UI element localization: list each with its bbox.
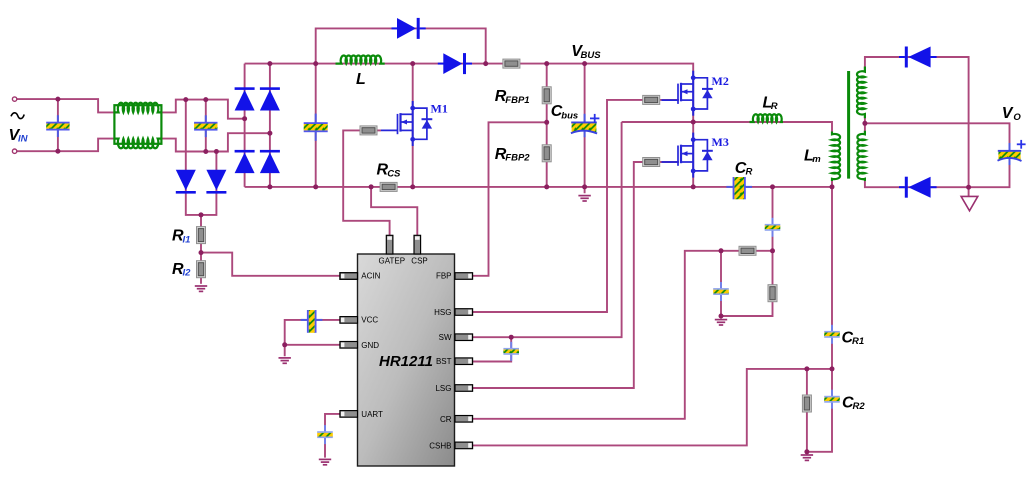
svg-text:R: R	[771, 101, 778, 112]
svg-text:FBP1: FBP1	[505, 95, 529, 106]
svg-text:V: V	[1002, 105, 1014, 122]
svg-text:CS: CS	[387, 168, 401, 179]
svg-text:GATEP: GATEP	[379, 257, 406, 266]
svg-text:CR: CR	[440, 415, 452, 424]
svg-text:M2: M2	[712, 74, 729, 88]
svg-text:SW: SW	[439, 333, 452, 342]
svg-text:ACIN: ACIN	[361, 272, 380, 281]
svg-text:FBP2: FBP2	[505, 153, 530, 164]
svg-text:FBP: FBP	[436, 272, 452, 281]
svg-text:R1: R1	[852, 336, 864, 347]
svg-text:I1: I1	[183, 234, 191, 245]
svg-text:R: R	[746, 167, 753, 178]
svg-text:BST: BST	[436, 357, 452, 366]
svg-text:m: m	[812, 154, 821, 165]
svg-text:GND: GND	[361, 341, 379, 350]
svg-text:M1: M1	[431, 102, 448, 116]
svg-text:M3: M3	[712, 135, 729, 149]
svg-text:CSP: CSP	[411, 257, 427, 266]
svg-text:bus: bus	[561, 110, 578, 121]
svg-text:BUS: BUS	[581, 50, 602, 61]
svg-text:LSG: LSG	[435, 384, 451, 393]
svg-text:R2: R2	[853, 401, 866, 412]
svg-text:VCC: VCC	[361, 316, 378, 325]
svg-text:HSG: HSG	[434, 308, 451, 317]
svg-text:HR1211: HR1211	[379, 353, 433, 370]
svg-text:O: O	[1013, 112, 1021, 123]
svg-text:CSHB: CSHB	[429, 441, 451, 450]
svg-text:UART: UART	[361, 410, 383, 419]
svg-text:IN: IN	[18, 133, 29, 144]
svg-text:I2: I2	[183, 268, 192, 279]
svg-text:L: L	[356, 71, 366, 88]
